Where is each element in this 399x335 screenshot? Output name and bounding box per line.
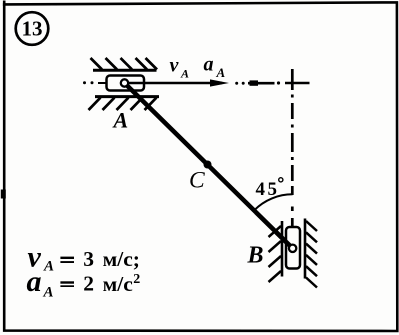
svg-text:5: 5 <box>268 179 278 200</box>
slider block A <box>107 76 145 91</box>
svg-text:C: C <box>189 167 205 193</box>
svg-text:B: B <box>247 242 264 268</box>
svg-text:2: 2 <box>83 271 94 295</box>
vertical dash-dot centerline <box>291 69 294 268</box>
arrowhead vA <box>210 79 229 86</box>
centerline dot <box>277 81 280 84</box>
rod AB <box>125 83 293 248</box>
centerline dots left of slider A <box>83 81 86 84</box>
centerline dot <box>235 82 238 85</box>
hatch above top guide <box>91 58 158 70</box>
problem number circle 13 <box>16 12 49 45</box>
svg-text:a: a <box>204 54 214 76</box>
centerline dash with aA arrowhead blob <box>248 82 275 85</box>
hatch left of left guide <box>269 226 282 282</box>
vector shaft vA/aA <box>126 82 222 85</box>
svg-text:A: A <box>112 107 129 132</box>
frame left border overshoot at top <box>3 1 6 7</box>
hatch right of right guide <box>306 221 317 288</box>
svg-text:13: 13 <box>22 16 43 40</box>
guide B right line <box>304 219 307 279</box>
pin B <box>289 245 296 252</box>
centerline dash crossing corner <box>285 82 310 84</box>
guide A bottom line <box>95 95 159 98</box>
svg-text:4: 4 <box>256 179 266 200</box>
guide A top line <box>93 69 157 72</box>
guide B left line <box>281 221 284 277</box>
angle arc 45 <box>254 194 292 210</box>
frame left border scan blob <box>1 190 6 199</box>
svg-text:A: A <box>216 65 226 80</box>
svg-text:A: A <box>180 66 189 80</box>
pin A <box>121 79 128 86</box>
svg-text:v: v <box>170 54 180 76</box>
midpoint C dot <box>204 161 212 169</box>
svg-text:м/с: м/с <box>103 272 133 296</box>
svg-text:3: 3 <box>83 247 94 271</box>
svg-text:a: a <box>27 265 42 298</box>
svg-text:A: A <box>43 284 54 300</box>
svg-text:2: 2 <box>133 272 140 287</box>
svg-text:м/с;: м/с; <box>103 247 140 271</box>
centerline through slider A <box>98 82 122 84</box>
svg-text:A: A <box>43 259 54 275</box>
slider block B <box>286 227 300 269</box>
rod end into pin B <box>276 232 293 248</box>
centerline dot <box>242 82 245 85</box>
hatch below bottom guide <box>89 98 157 110</box>
